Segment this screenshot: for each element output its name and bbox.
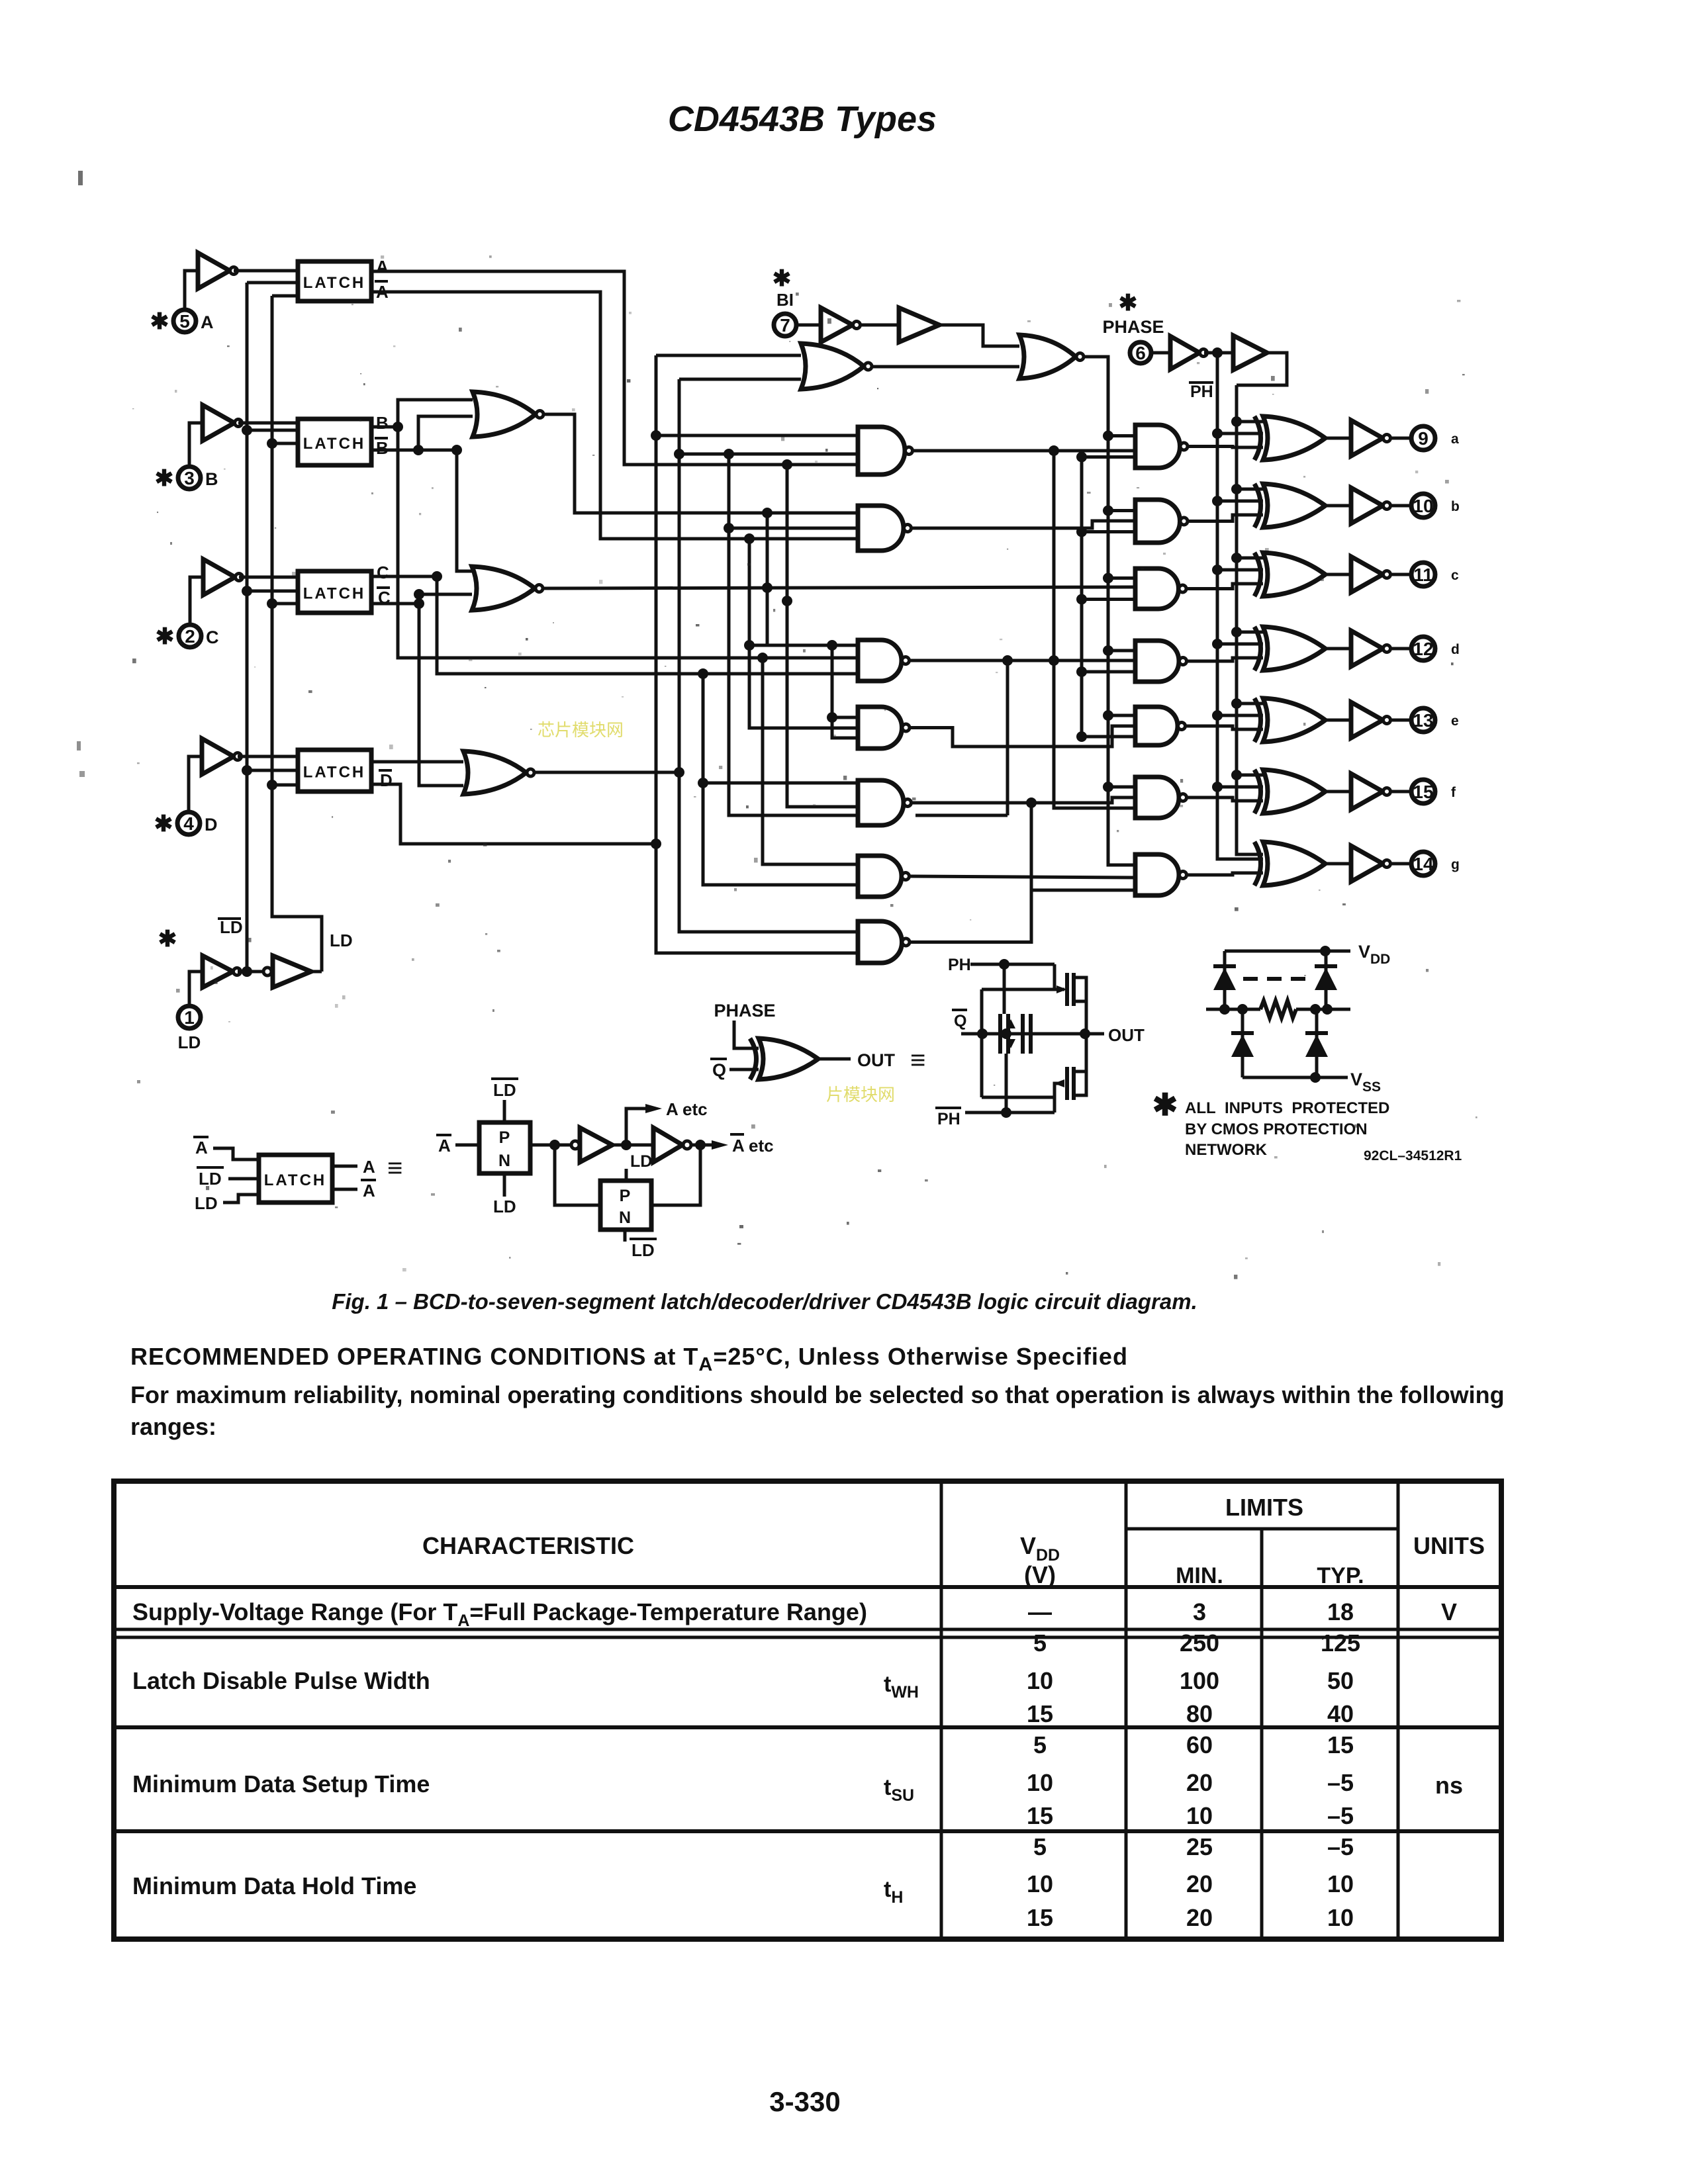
overline latch A qbar bbox=[375, 280, 388, 283]
svg-text:10: 10 bbox=[1186, 1802, 1213, 1829]
wire tg out wire bbox=[1086, 1032, 1104, 1036]
svg-text:For maximum reliability, nomin: For maximum reliability, nominal operati… bbox=[130, 1381, 1505, 1408]
input inverter A bbox=[198, 253, 230, 289]
wire e row under-gate link bbox=[915, 814, 1008, 817]
svg-text:P: P bbox=[620, 1187, 631, 1205]
svg-text:LATCH: LATCH bbox=[303, 585, 366, 603]
wire data in A bbox=[234, 269, 298, 273]
junction LD bus tap 912 bbox=[267, 598, 277, 609]
wire tg t1 gate bbox=[1055, 964, 1064, 989]
wire pn1 bottom pin bbox=[503, 1173, 506, 1197]
svg-text:C: C bbox=[377, 563, 389, 582]
svg-text:10: 10 bbox=[1027, 1667, 1053, 1694]
svg-text:40: 40 bbox=[1327, 1700, 1354, 1727]
svg-text:5: 5 bbox=[179, 311, 190, 332]
svg-text:10: 10 bbox=[1027, 1870, 1053, 1897]
svg-text:A: A bbox=[201, 312, 214, 332]
junction LD-bar bus tap 1164 bbox=[242, 765, 252, 776]
wire nand a2 in bottom bbox=[1082, 455, 1135, 459]
overline latch C qbar bbox=[377, 586, 390, 589]
svg-text:Fig. 1 – BCD-to-seven-segment: Fig. 1 – BCD-to-seven-segment latch/deco… bbox=[332, 1289, 1197, 1314]
svg-text:✱: ✱ bbox=[154, 811, 173, 837]
output inverter b bbox=[1351, 488, 1383, 523]
wire pn right top bbox=[1325, 951, 1328, 1009]
wire legend out A bbox=[332, 1165, 357, 1168]
wire xnor e in PH bbox=[1237, 702, 1263, 705]
svg-text:✱: ✱ bbox=[773, 266, 792, 291]
svg-text:ALL INPUTS PROTECTED: ALL INPUTS PROTECTED bbox=[1185, 1099, 1389, 1117]
junction tg phbar node bbox=[1001, 1107, 1011, 1118]
margin artifact 3 bbox=[79, 771, 85, 777]
svg-text:B: B bbox=[205, 469, 218, 489]
nand a1 (decode a) bbox=[858, 427, 905, 475]
svg-text:92CL–34512R1: 92CL–34512R1 bbox=[1364, 1148, 1462, 1163]
svg-text:PHASE: PHASE bbox=[714, 1001, 775, 1021]
input pin B bbox=[178, 467, 201, 489]
xnor f bbox=[1254, 770, 1261, 813]
input pin C bbox=[179, 625, 201, 647]
wire feed a1 top bbox=[656, 434, 858, 437]
junction c1 line tap bbox=[1049, 655, 1059, 666]
junction PH bus tap a bbox=[1231, 416, 1242, 427]
junction net B-bar node2 bbox=[451, 445, 462, 455]
wire xnor e in PHbar bbox=[1217, 714, 1263, 717]
wire tg left rail bbox=[980, 989, 984, 1097]
output inverter g bbox=[1351, 846, 1383, 882]
junction PH bus tap f bbox=[1231, 770, 1242, 780]
wire net D bbox=[371, 760, 463, 764]
wire feed b1 mid bbox=[729, 527, 858, 530]
input pin A bbox=[173, 310, 196, 332]
wire tg t2 gate bbox=[1055, 1083, 1064, 1113]
wire BI inv to buffer bbox=[861, 324, 899, 327]
svg-text:A etc: A etc bbox=[732, 1136, 774, 1156]
bus LD-bar vertical bbox=[246, 283, 249, 972]
wire bus v1189 bbox=[787, 465, 858, 807]
wire LD inv2 out bbox=[311, 970, 322, 974]
junction mid bus tap d bbox=[1076, 666, 1087, 677]
wire legend in3 bbox=[223, 1195, 259, 1203]
wire xnor a in PHbar bbox=[1217, 432, 1263, 435]
junction net A tap bbox=[782, 459, 792, 470]
svg-text:14: 14 bbox=[1413, 854, 1434, 874]
wire tg t2 src bbox=[1074, 1083, 1086, 1095]
junction pn rail node 1877 bbox=[1237, 1004, 1248, 1015]
wire nand d2 in top bbox=[1108, 649, 1135, 653]
wire nand e2 out bbox=[1186, 726, 1263, 729]
wire pn2 feedback out bbox=[651, 1145, 700, 1205]
svg-text:ns: ns bbox=[1435, 1772, 1463, 1799]
svg-text:LATCH: LATCH bbox=[303, 764, 366, 782]
svg-text:60: 60 bbox=[1186, 1731, 1213, 1758]
svg-text:(V): (V) bbox=[1024, 1561, 1056, 1588]
svg-text:✱: ✱ bbox=[158, 927, 177, 952]
junction NOR1 out tap bbox=[762, 508, 773, 518]
wire nand d2 out bbox=[1187, 658, 1263, 661]
junction net C tap bbox=[698, 668, 708, 679]
svg-text:3: 3 bbox=[184, 468, 195, 488]
junction PHbar bus tap e bbox=[1212, 710, 1223, 721]
svg-text:D: D bbox=[205, 815, 218, 835]
junction BI bus tap c bbox=[1103, 573, 1113, 584]
nand b2 (output b) bbox=[1135, 500, 1180, 543]
svg-text:4: 4 bbox=[183, 813, 194, 834]
svg-text:–5: –5 bbox=[1327, 1833, 1354, 1860]
svg-text:✱: ✱ bbox=[1152, 1087, 1178, 1122]
wire LD pin to inverter bbox=[189, 972, 203, 1006]
junction pn vss node bbox=[1310, 1072, 1321, 1083]
junction bus v1189 tap bbox=[782, 596, 792, 606]
svg-text:10: 10 bbox=[1027, 1769, 1053, 1796]
latch A box bbox=[298, 261, 371, 301]
latch D box bbox=[298, 750, 371, 792]
xnor c bbox=[1254, 553, 1261, 596]
input inverter B bbox=[203, 405, 234, 441]
svg-text:A: A bbox=[438, 1136, 451, 1156]
wire data in B bbox=[238, 422, 298, 425]
svg-text:5: 5 bbox=[1033, 1833, 1047, 1860]
resistor R1 bbox=[1260, 1001, 1296, 1018]
wire net C-bar bbox=[371, 602, 419, 606]
svg-text:g: g bbox=[1451, 857, 1460, 872]
overline PH label bar bbox=[1189, 381, 1213, 384]
wire bus v1592 bbox=[1054, 451, 1135, 808]
output inverter f bbox=[1351, 774, 1383, 809]
wire tg Q wire bbox=[961, 1032, 1085, 1036]
wire bus v1062 bbox=[703, 674, 858, 885]
wire bus v1026 bbox=[679, 379, 858, 932]
svg-text:RECOMMENDED OPERATING CONDITIO: RECOMMENDED OPERATING CONDITIONS at TA=2… bbox=[130, 1343, 1128, 1375]
wire output f wire bbox=[1391, 790, 1411, 794]
svg-text:b: b bbox=[1451, 499, 1460, 514]
junction bus v1062 tap e bbox=[698, 778, 708, 788]
wire pn2 bottom pin bbox=[624, 1230, 627, 1242]
xnor d bbox=[1254, 627, 1261, 670]
svg-text:OUT: OUT bbox=[1108, 1025, 1145, 1045]
junction PHbar bus tap a bbox=[1212, 428, 1223, 439]
svg-text:B: B bbox=[376, 438, 389, 458]
wire b1 to b2 bbox=[912, 521, 1135, 528]
svg-text:VSS: VSS bbox=[1350, 1069, 1381, 1095]
wire tg bottom link bbox=[982, 1097, 1055, 1113]
overline LD-bar bus bbox=[218, 917, 241, 920]
wire input C to buffer bbox=[190, 577, 203, 625]
svg-text:片模块网: 片模块网 bbox=[826, 1085, 895, 1105]
junction PHbar bus tap f bbox=[1212, 782, 1223, 792]
svg-text:10: 10 bbox=[1327, 1870, 1354, 1897]
wire pn2 top pin bbox=[625, 1169, 628, 1181]
wire xnor c out bbox=[1325, 573, 1351, 576]
junction LD bus tap 670 bbox=[267, 438, 277, 449]
wire output g wire bbox=[1391, 862, 1411, 866]
junction net C-bar stub node bbox=[414, 589, 424, 600]
wire nand c2 in top bbox=[1108, 576, 1135, 580]
wire pn input rail right bbox=[1296, 1008, 1350, 1011]
PHASE buffer bbox=[1233, 336, 1267, 370]
wire LD-bar stub latch A bbox=[247, 281, 298, 285]
svg-text:Minimum Data Hold Time: Minimum Data Hold Time bbox=[132, 1872, 416, 1899]
feedback inverter 2 bbox=[653, 1128, 682, 1162]
wire xnor b in PHbar bbox=[1217, 500, 1263, 503]
svg-text:2: 2 bbox=[185, 626, 195, 647]
svg-text:a: a bbox=[1451, 432, 1459, 447]
wire net B-bar bbox=[371, 449, 457, 452]
svg-text:N: N bbox=[619, 1208, 631, 1227]
svg-text:LD: LD bbox=[195, 1193, 218, 1213]
svg-text:15: 15 bbox=[1027, 1700, 1053, 1727]
wire tg PH wire bbox=[970, 963, 1055, 966]
overline pn2 LDbar bbox=[630, 1238, 657, 1240]
wire g1 riser bbox=[910, 803, 1032, 942]
LD inverter 2 input bubble bbox=[263, 968, 271, 976]
wire xnor a out bbox=[1325, 437, 1351, 440]
wire pn vdd rail bbox=[1225, 950, 1350, 953]
wire bus v1152 bbox=[763, 658, 858, 864]
junction tg q node2 bbox=[1001, 1028, 1011, 1039]
overline legend Qbar bbox=[710, 1058, 727, 1060]
svg-text:250: 250 bbox=[1180, 1629, 1219, 1657]
wire pn vss rail bbox=[1243, 1076, 1348, 1079]
wire xnor d out bbox=[1325, 647, 1351, 651]
wire nand c2 in bottom bbox=[1082, 598, 1135, 601]
wire nand f2 in top bbox=[1108, 786, 1135, 789]
junction c1 line tap2 bbox=[1002, 655, 1013, 666]
svg-text:9: 9 bbox=[1418, 428, 1429, 449]
nor gate B row bbox=[473, 392, 536, 437]
wire bus v1101 bbox=[729, 454, 858, 815]
junction net B-bar node bbox=[413, 445, 424, 455]
svg-text:1: 1 bbox=[184, 1007, 195, 1028]
junction NORC riser tap bbox=[827, 640, 837, 651]
diode D1 bbox=[1213, 968, 1236, 990]
svg-text:c: c bbox=[1451, 568, 1459, 583]
svg-text:LD: LD bbox=[220, 917, 243, 937]
svg-text:LD: LD bbox=[178, 1032, 201, 1052]
svg-text:TYP.: TYP. bbox=[1317, 1563, 1364, 1588]
svg-text:A: A bbox=[363, 1157, 375, 1177]
svg-text:CHARACTERISTIC: CHARACTERISTIC bbox=[422, 1532, 634, 1559]
svg-text:f: f bbox=[1451, 785, 1456, 800]
nand f2 (output f) bbox=[1135, 777, 1179, 818]
svg-text:LATCH: LATCH bbox=[303, 274, 366, 292]
wire nand a2 in top bbox=[1108, 434, 1135, 437]
wire pn input rail left bbox=[1206, 1008, 1260, 1011]
wire legend in2 bbox=[228, 1177, 259, 1181]
svg-text:15: 15 bbox=[1413, 782, 1433, 802]
svg-text:B: B bbox=[376, 413, 389, 433]
junction net B node bbox=[393, 422, 403, 432]
svg-text:LD: LD bbox=[199, 1169, 222, 1189]
wire A etc riser bbox=[626, 1109, 645, 1145]
overline tg PHbar bbox=[935, 1107, 961, 1109]
margin artifact 2 bbox=[77, 741, 81, 751]
junction pn rail node 1987 bbox=[1310, 1004, 1321, 1015]
nand a2 (output a) bbox=[1135, 425, 1180, 468]
svg-text:3: 3 bbox=[1193, 1598, 1206, 1625]
xnor a bbox=[1254, 416, 1261, 460]
wire LD-bar stub latch B bbox=[247, 429, 298, 432]
wire LD stub latch A bbox=[272, 295, 298, 298]
svg-text:15: 15 bbox=[1327, 1731, 1354, 1758]
svg-text:A: A bbox=[376, 257, 389, 277]
input pin PHASE bbox=[1130, 342, 1151, 363]
wire xnor e out bbox=[1325, 719, 1351, 722]
wire net C down bbox=[437, 576, 858, 674]
overline pn1 LDbar bbox=[491, 1077, 518, 1080]
wire nand b2 in bottom bbox=[1082, 530, 1135, 533]
wire data in D bbox=[238, 755, 298, 758]
junction LD-bar bus tap 650 bbox=[242, 425, 252, 435]
svg-text:Latch Disable Pulse Width: Latch Disable Pulse Width bbox=[132, 1667, 430, 1694]
svg-text:LD: LD bbox=[493, 1197, 516, 1216]
table grid bbox=[114, 1481, 1501, 1939]
wire LD stub latch C bbox=[272, 602, 298, 606]
svg-text:d: d bbox=[1451, 642, 1460, 657]
wire LD-bar stub latch D bbox=[247, 769, 298, 772]
overline legend LDbar in bbox=[197, 1166, 224, 1169]
junction pn vdd node bbox=[1320, 946, 1331, 956]
wire nand c2 out bbox=[1187, 584, 1264, 589]
svg-text:15: 15 bbox=[1027, 1802, 1053, 1829]
junction BI bus tap d bbox=[1103, 645, 1113, 656]
junction NORC out tap bbox=[762, 582, 773, 593]
svg-text:A: A bbox=[195, 1138, 208, 1158]
svg-text:LIMITS: LIMITS bbox=[1225, 1494, 1303, 1521]
wire LD stub latch B bbox=[272, 442, 298, 445]
wire BI nor out bbox=[872, 365, 1019, 369]
diode D2 bbox=[1315, 968, 1337, 990]
wire net B down bbox=[398, 427, 858, 658]
wire data in C bbox=[239, 576, 298, 579]
diode D4 bbox=[1305, 1034, 1328, 1057]
wire BI to inverter bbox=[796, 324, 821, 327]
LD inverter 1 bbox=[203, 956, 233, 987]
wire c1 to d2 bbox=[910, 659, 1135, 662]
input inverter D bbox=[202, 739, 234, 774]
junction BI bus tap b bbox=[1103, 506, 1113, 516]
wire input D to buffer bbox=[189, 756, 202, 812]
svg-text:10: 10 bbox=[1413, 496, 1433, 516]
svg-text:–5: –5 bbox=[1327, 1769, 1354, 1796]
wire nand g2 out bbox=[1187, 873, 1263, 875]
wire tg tg-bottom pin bbox=[1005, 1054, 1008, 1113]
scan specks bbox=[572, 408, 575, 412]
svg-text:18: 18 bbox=[1327, 1598, 1354, 1625]
output inverter d bbox=[1351, 631, 1383, 666]
junction PHbar bus tap d bbox=[1212, 639, 1223, 649]
wire pn1 in bbox=[455, 1144, 479, 1147]
svg-text:CD4543B Types: CD4543B Types bbox=[668, 99, 937, 139]
wire nand d2 in bottom bbox=[1082, 670, 1135, 674]
svg-text:PH: PH bbox=[937, 1110, 961, 1128]
wire output a wire bbox=[1391, 437, 1411, 440]
svg-text:—: — bbox=[1028, 1598, 1052, 1625]
wire tg PHbar wire bbox=[965, 1111, 1055, 1115]
wire nand b2 out bbox=[1188, 515, 1264, 522]
junction mid bus tap b bbox=[1076, 527, 1087, 537]
junction bus v991 tap a bbox=[651, 430, 661, 441]
svg-text:100: 100 bbox=[1180, 1667, 1219, 1694]
latch C box bbox=[298, 571, 371, 613]
wire net B to NOR1 in1 bbox=[398, 400, 473, 427]
wire xnor f in PH bbox=[1237, 774, 1263, 777]
output pin a bbox=[1411, 426, 1435, 450]
wire legend out Abar bbox=[332, 1188, 357, 1191]
svg-text:10: 10 bbox=[1327, 1904, 1354, 1931]
svg-text:NETWORK: NETWORK bbox=[1185, 1141, 1268, 1159]
overline legend out Abar bbox=[361, 1179, 376, 1181]
svg-text:VDD: VDD bbox=[1020, 1532, 1060, 1565]
wire legend in1 bbox=[213, 1148, 259, 1160]
junction NORD out node bbox=[674, 767, 684, 778]
nor gate BI blank bbox=[801, 343, 864, 389]
wire input A to buffer bbox=[185, 271, 198, 310]
junction bus v1101 tap bbox=[724, 449, 734, 459]
svg-text:50: 50 bbox=[1327, 1667, 1354, 1694]
wire PHASE inv to buffer bbox=[1204, 351, 1233, 355]
wire LD stub latch D bbox=[272, 784, 298, 787]
wire e1 to f2 bbox=[912, 797, 1135, 803]
wire a1 to a2 bbox=[913, 449, 1135, 453]
svg-text:–5: –5 bbox=[1327, 1802, 1354, 1829]
svg-text:UNITS: UNITS bbox=[1413, 1532, 1485, 1559]
svg-text:LATCH: LATCH bbox=[264, 1171, 327, 1189]
wire pn2 feedback in bbox=[555, 1145, 600, 1205]
wire nand f2 out bbox=[1187, 797, 1263, 801]
svg-text:OUT: OUT bbox=[857, 1050, 896, 1070]
nor gate C row bbox=[472, 567, 535, 610]
nand b1 (decode b) bbox=[858, 506, 904, 551]
xnor e bbox=[1254, 698, 1261, 742]
svg-text:7: 7 bbox=[780, 315, 790, 336]
xnor g bbox=[1254, 842, 1261, 886]
wire xnor c in PH bbox=[1237, 557, 1263, 560]
or gate BI phase bbox=[1019, 335, 1076, 379]
wire BI buffer out bbox=[939, 325, 1019, 346]
wire LD-bar stub latch C bbox=[247, 590, 298, 593]
wire feed c jog bbox=[749, 644, 767, 647]
output pin c bbox=[1411, 563, 1435, 586]
junction net C node bbox=[432, 571, 442, 582]
svg-text:PH: PH bbox=[1190, 383, 1213, 401]
junction net C-bar node bbox=[414, 598, 424, 609]
wire feed a1 mid bbox=[679, 453, 858, 456]
junction mid bus tap c bbox=[1076, 594, 1087, 605]
wire nand e2 in top bbox=[1108, 714, 1135, 717]
tg output transistor bottom bbox=[1065, 1067, 1069, 1100]
wire net B-bar to NOR1 in2 bbox=[418, 416, 473, 450]
wire nand e2 in bottom bbox=[1082, 735, 1135, 739]
wire bus v1132 bbox=[749, 539, 858, 728]
junction e1 line tap bbox=[1026, 797, 1037, 808]
dashed link bbox=[1243, 977, 1309, 981]
junction LD-bar bus tap 893 bbox=[242, 586, 252, 596]
junction bus v1101 tap b bbox=[724, 523, 734, 533]
svg-text:≡: ≡ bbox=[387, 1154, 402, 1183]
margin artifact bbox=[78, 171, 83, 185]
input pin LD bbox=[178, 1006, 201, 1028]
wire bus v1257 bbox=[832, 645, 858, 738]
svg-text:✱: ✱ bbox=[155, 466, 174, 491]
junction mid bus tap a bbox=[1076, 452, 1087, 463]
wire PHASE buffer loop bbox=[1237, 353, 1287, 385]
svg-text:20: 20 bbox=[1186, 1904, 1213, 1931]
output pin d bbox=[1411, 637, 1435, 660]
wire pn right bottom bbox=[1315, 1009, 1319, 1077]
svg-text:11: 11 bbox=[1413, 565, 1433, 585]
wire tg tg-top pin bbox=[1003, 964, 1006, 1014]
wire pn left top bbox=[1223, 951, 1227, 1009]
